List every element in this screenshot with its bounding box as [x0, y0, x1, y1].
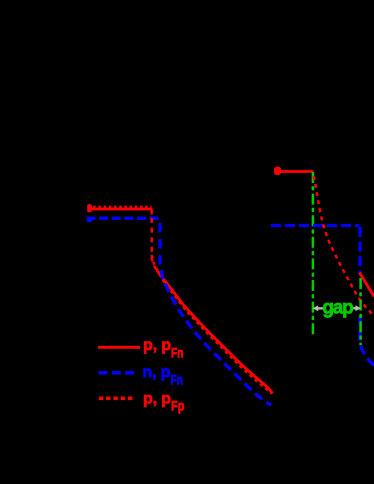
dotted red diagonal left (hugs solid, slightly below)	[152, 255, 272, 394]
dashed blue diagonal left	[161, 270, 271, 405]
dotted red diagonal in gap	[314, 176, 374, 317]
curve p,pFn solid flat left	[88, 208, 153, 211]
gap arrow left (gray)	[313, 305, 324, 311]
dashed blue vertical right (lower, bends right)	[360, 316, 374, 366]
solid red flat right	[274, 170, 313, 173]
start blob red right	[274, 167, 281, 175]
legend swatch dashed blue	[99, 371, 135, 375]
green dash-dot line 2 (right gap boundary)	[359, 278, 362, 345]
curve n,pFn dashed flat left	[87, 217, 160, 220]
solid red diagonal left	[157, 271, 273, 394]
legend swatch dotted red	[99, 396, 134, 400]
green dash-dot line 1 (left gap boundary)	[312, 172, 315, 336]
dotted vertical drop left	[152, 218, 157, 270]
solid red diagonal right of gap	[360, 273, 374, 297]
end tick red left	[150, 209, 152, 215]
svg-text:gap: gap	[322, 298, 353, 319]
gap arrow right (gray)	[352, 305, 361, 311]
curve p,pFp dotted flat left	[88, 206, 152, 208]
start tick blue left	[87, 217, 92, 222]
dashed vertical drop left	[160, 223, 162, 274]
start tick red left	[87, 204, 92, 212]
dashed blue vertical right (upper)	[358, 227, 361, 274]
dashed blue flat right	[271, 224, 360, 227]
legend swatch solid red	[98, 346, 140, 349]
